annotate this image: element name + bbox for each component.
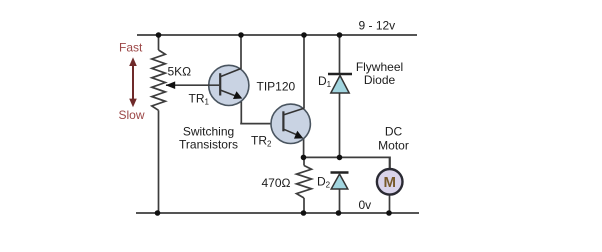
svg-text:DC: DC <box>385 125 403 139</box>
svg-text:Switching: Switching <box>183 124 234 138</box>
red speed arrow <box>129 57 137 107</box>
wire 470 resistor top lead <box>303 157 305 165</box>
svg-text:TR1: TR1 <box>189 92 210 107</box>
wire mid horizontal node to motor <box>304 157 391 169</box>
wire TR2 emitter down to mid node <box>303 139 305 158</box>
svg-text:M: M <box>383 174 396 191</box>
svg-text:Fast: Fast <box>119 41 143 55</box>
svg-text:TR2: TR2 <box>251 134 272 149</box>
motor M <box>377 157 403 194</box>
wire TR1 emitter to TR2 base <box>240 123 283 125</box>
wire D1 bottom lead <box>339 93 341 157</box>
wire pot bottom lead <box>158 110 160 213</box>
svg-text:Diode: Diode <box>364 73 396 87</box>
svg-text:5KΩ: 5KΩ <box>168 65 192 79</box>
node junction dots <box>155 32 392 216</box>
transistor TR1 <box>166 65 249 105</box>
wire 470 resistor bottom lead <box>303 198 305 213</box>
wire TR2 collector to rail <box>303 35 305 109</box>
svg-text:Transistors: Transistors <box>179 138 238 152</box>
diode D2 <box>331 173 349 190</box>
wire TR1 emitter down <box>240 100 242 124</box>
svg-text:9 - 12v: 9 - 12v <box>359 19 396 33</box>
svg-text:0v: 0v <box>359 198 372 212</box>
wire TR1 collector to rail <box>240 35 242 69</box>
wire motor bottom lead <box>389 195 391 213</box>
svg-text:Motor: Motor <box>378 138 409 152</box>
svg-text:D1: D1 <box>318 74 332 89</box>
wire bottom 0v rail <box>136 212 419 214</box>
svg-text:D2: D2 <box>317 175 331 190</box>
diode D1 flywheel <box>328 74 352 93</box>
wire D2 bottom lead <box>339 189 341 213</box>
potentiometer VR1 5K zigzag <box>152 50 166 110</box>
wire pot top lead <box>158 35 160 50</box>
wire D1 top lead <box>339 35 341 74</box>
svg-text:TIP120: TIP120 <box>257 80 296 94</box>
svg-text:Flywheel: Flywheel <box>356 60 403 74</box>
resistor R1 470 zigzag <box>297 166 312 199</box>
svg-text:Slow: Slow <box>119 108 145 122</box>
wire top supply rail <box>137 34 417 36</box>
transistor TR2 <box>271 104 310 143</box>
svg-text:470Ω: 470Ω <box>262 176 291 190</box>
wiper arrowhead of potentiometer <box>166 81 176 89</box>
